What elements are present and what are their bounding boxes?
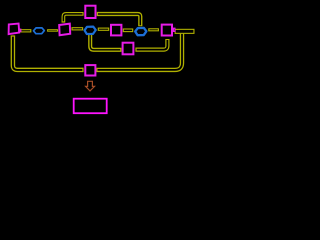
- tab on box4 right: [173, 28, 175, 31]
- box4: [162, 25, 172, 36]
- wire W2 top box to ellipse E3 top: [97, 14, 141, 26]
- connector C1 box1 to ellipse E1: [20, 30, 31, 32]
- ellipse E2: [85, 27, 96, 34]
- wire W1 box2 top to top box: [63, 14, 83, 23]
- arrow down: [86, 81, 95, 91]
- wire W5 box5 right up to box4 bottom: [135, 39, 167, 50]
- connector C7 box4 output stub: [175, 29, 194, 33]
- ellipse E3: [135, 28, 146, 35]
- connector C6 ellipse E3 to box4: [149, 29, 159, 31]
- ellipse E1: [34, 28, 45, 34]
- connector C4 ellipse E2 to box3: [98, 28, 108, 30]
- box5: [123, 43, 134, 55]
- connector C2 ellipse E1 to box2: [48, 30, 58, 32]
- box6: [85, 65, 95, 75]
- box3: [111, 25, 121, 36]
- box T top: [85, 6, 95, 18]
- wire W3b box6 right to riser up to box4 output: [96, 33, 182, 70]
- connector C5 box3 to ellipse E3: [123, 29, 132, 32]
- box1: [9, 24, 20, 35]
- wire W4 ellipse E2 bottom down and right to box5: [90, 35, 121, 50]
- box2: [59, 24, 70, 36]
- big rectangle: [74, 99, 107, 114]
- connector C3 box2 to ellipse E2: [72, 28, 83, 30]
- tab on box1 right: [19, 29, 21, 31]
- wire W3a box1 bottom down and right to box6: [13, 35, 84, 70]
